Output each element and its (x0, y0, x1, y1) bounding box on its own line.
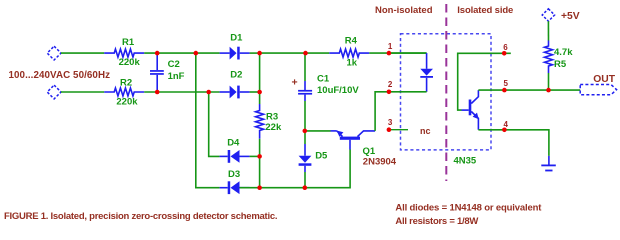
svg-text:D4: D4 (227, 137, 240, 148)
connector J2 bottom AC input diamond (47, 85, 61, 99)
svg-text:2: 2 (388, 80, 393, 89)
wire vertical from top AC down to D3 (196, 53, 220, 188)
resistor R5 (545, 41, 574, 74)
svg-text:R1: R1 (122, 37, 135, 48)
node top D1 anode junction (194, 51, 199, 56)
wire top AC from J1 to R1 (61, 52, 104, 54)
wire R5 to OUT node (548, 73, 550, 90)
svg-text:4N35: 4N35 (454, 155, 477, 166)
capacitor C2 (150, 53, 185, 92)
capacitor C1 polarized (292, 53, 360, 101)
svg-text:2N3904: 2N3904 (363, 157, 397, 168)
wire top AC from R1 to D1 (144, 52, 219, 54)
pin 4 (502, 120, 508, 132)
svg-text:FIGURE 1. Isolated, precision: FIGURE 1. Isolated, precision zero-cross… (4, 211, 278, 222)
svg-text:D1: D1 (230, 32, 243, 43)
svg-text:+5V: +5V (561, 11, 580, 22)
wire bottom AC from R2 to D2 (144, 91, 219, 93)
node A emitter junction (303, 129, 308, 134)
wire D5 cathode to rail (304, 172, 306, 188)
node D5 cathode rail junction (303, 185, 308, 190)
optocoupler pin 3 nc stub (389, 129, 408, 131)
optocoupler phototransistor (458, 53, 511, 130)
svg-text:1k: 1k (347, 58, 358, 69)
optocoupler U1 4N35 package box (401, 34, 492, 167)
node top C1 junction (303, 51, 308, 56)
wire R4 to opto pin 1 (369, 52, 426, 54)
pin 3 (387, 118, 393, 132)
svg-text:10uF/10V: 10uF/10V (317, 85, 359, 96)
svg-text:D3: D3 (228, 169, 240, 180)
node top bridge plus junction (257, 51, 262, 56)
svg-text:D2: D2 (230, 70, 242, 81)
wire bottom AC from J2 to R2 (61, 91, 104, 93)
diode D5 (299, 131, 328, 172)
node top C2 junction (155, 51, 160, 56)
svg-text:+: + (292, 77, 298, 89)
ground symbol (541, 156, 556, 172)
svg-text:5: 5 (503, 79, 508, 88)
connector OUT flag (580, 74, 616, 95)
wire R3 bottom to D4 node and down to rail (259, 139, 261, 188)
svg-text:3: 3 (388, 118, 393, 127)
resistor R2 (104, 78, 144, 108)
svg-text:220k: 220k (119, 57, 141, 68)
svg-text:22k: 22k (265, 122, 282, 133)
resistor R3 (256, 104, 282, 139)
pin 6 (502, 43, 508, 56)
svg-text:C2: C2 (168, 59, 180, 70)
svg-text:OUT: OUT (593, 74, 615, 85)
node D2 cathode junction (257, 90, 262, 95)
wire +5V to R5 (547, 21, 549, 40)
svg-text:R4: R4 (345, 36, 358, 47)
wire opto pin 4 emitter to ground (478, 130, 549, 156)
resistor R1 (104, 37, 144, 68)
wire bottom rail from bridge to C1/D5 node and Q1 (260, 150, 351, 188)
svg-text:nc: nc (420, 126, 431, 136)
wire vertical from bottom AC down to D4 (209, 92, 220, 156)
node D4 anode junction (257, 154, 262, 159)
svg-text:Non-isolated: Non-isolated (375, 5, 433, 16)
svg-text:100...240VAC 50/60Hz: 100...240VAC 50/60Hz (9, 70, 111, 81)
wire D4 anode to bridge node (250, 155, 260, 157)
svg-text:1nF: 1nF (168, 71, 185, 82)
svg-text:Isolated side: Isolated side (457, 5, 513, 16)
wire D1 cathode to bridge node (250, 52, 260, 54)
svg-text:R5: R5 (554, 59, 567, 70)
svg-text:4: 4 (503, 120, 508, 129)
wire OUT node to connector (549, 89, 581, 91)
pin 1 (387, 42, 393, 55)
svg-text:All diodes = 1N4148 or equival: All diodes = 1N4148 or equivalent (395, 202, 542, 213)
diode D4 (220, 137, 250, 162)
pin 5 (502, 79, 508, 92)
svg-text:R2: R2 (120, 78, 132, 89)
svg-text:Q1: Q1 (363, 146, 376, 157)
wire node A to Q1 emitter (305, 130, 331, 132)
transistor Q1 (331, 131, 397, 168)
diode D3 (220, 169, 250, 194)
wire bridge right vertical top (259, 53, 261, 104)
svg-text:R3: R3 (266, 111, 278, 122)
diode D1 (220, 32, 250, 59)
svg-text:D5: D5 (315, 151, 328, 162)
svg-text:All resistors = 1/8W: All resistors = 1/8W (395, 216, 478, 227)
power +5V connector diamond (542, 9, 580, 22)
wire D2 cathode to bridge node (250, 91, 260, 93)
wire C1 bottom to node A (304, 101, 306, 131)
svg-text:C1: C1 (317, 74, 330, 85)
wire opto pin 5 collector out (478, 89, 548, 91)
svg-text:6: 6 (503, 43, 508, 52)
wire Q1 collector to opto pin 2 (375, 92, 389, 131)
svg-text:1: 1 (388, 42, 393, 51)
wire D3 anode to bottom rail node (240, 187, 260, 189)
pin 2 (387, 80, 393, 94)
svg-text:4.7k: 4.7k (554, 47, 573, 58)
optocoupler LED (389, 53, 433, 92)
node bottom C2 junction (155, 90, 160, 95)
node bottom D4 branch junction (206, 90, 211, 95)
node D3 anode junction (257, 185, 262, 190)
divider isolation dashed line (445, 4, 447, 181)
connector J1 top AC input diamond (47, 46, 61, 60)
resistor R4 (329, 36, 369, 69)
wire top AC from bridge node to R4 (260, 52, 330, 54)
node R5 OUT junction (546, 88, 551, 93)
diode D2 (220, 70, 250, 99)
svg-text:220k: 220k (116, 97, 138, 108)
